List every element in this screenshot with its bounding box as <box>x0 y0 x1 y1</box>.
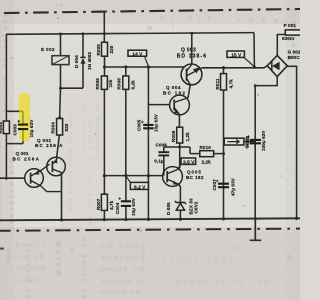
diode D004 1N4002 <box>74 52 92 70</box>
resistor R007 <box>96 194 114 210</box>
svg-text:4,7k: 4,7k <box>109 200 114 210</box>
svg-text:10µ 63V: 10µ 63V <box>131 197 136 216</box>
wire: D004 top lead to rail <box>82 34 84 58</box>
relay E002 <box>41 47 69 65</box>
wire: C006 bottom lead to Q005 base <box>163 156 165 176</box>
resistor R010 <box>200 145 214 165</box>
wire: trimmer R012 to filter node <box>244 141 255 143</box>
svg-text:nednuk re: nednuk re <box>102 279 144 285</box>
top boundary dash-dot line <box>4 9 300 13</box>
svg-text:ba: ba <box>287 254 293 260</box>
wire: down to R004 <box>59 88 62 118</box>
wire: C003 top lead <box>22 111 24 124</box>
bridge rectifier G002 B80C <box>267 50 301 77</box>
capacitor C008 <box>244 130 265 151</box>
svg-text:6,2 V: 6,2 V <box>134 184 146 190</box>
svg-text:820: 820 <box>64 123 69 131</box>
svg-text:R006: R006 <box>95 78 100 90</box>
svg-text:C005: C005 <box>136 119 141 131</box>
svg-text:eid hcrud: eid hcrud <box>100 244 144 250</box>
yellow highlighter mark <box>18 93 30 136</box>
svg-text:R005: R005 <box>96 44 101 56</box>
wire: R011 top lead <box>223 68 225 74</box>
wire: C004 bottom lead to bus <box>125 206 127 219</box>
wire: Q003 base link down to Q004 <box>188 85 190 98</box>
svg-text:220: 220 <box>109 45 114 53</box>
svg-text:BD 138-6: BD 138-6 <box>177 54 207 60</box>
svg-text:C007: C007 <box>212 179 217 191</box>
wire: Q004 emitter to R009 <box>178 114 180 127</box>
wire: R003 bottom joining bar <box>6 134 23 144</box>
wire: R007 bottom to bus <box>103 210 105 219</box>
boxed voltage 6,2V <box>126 177 148 191</box>
wire: R005 drop crossing rail from boundary <box>103 12 105 42</box>
capacitor C005 <box>136 113 158 132</box>
svg-text:630m: 630m <box>282 36 294 41</box>
svg-text:Q 001: Q 001 <box>16 151 29 156</box>
svg-text:BC 182: BC 182 <box>186 175 204 180</box>
svg-text:BC 182: BC 182 <box>163 90 185 95</box>
wire: R004 to Q002 emitter <box>57 135 60 158</box>
svg-text:Q005: Q005 <box>187 170 201 175</box>
wire: sense horizontal line to Q005 base <box>104 175 162 177</box>
wire: node horizontal C006/R010 <box>164 146 190 148</box>
svg-text:C003: C003 <box>13 124 18 136</box>
svg-text:R009: R009 <box>171 130 176 142</box>
wire: bridge bottom elbow <box>255 77 277 86</box>
resistor R005 <box>96 42 114 56</box>
svg-text:P 001: P 001 <box>284 23 297 28</box>
boxed voltage 15V <box>227 51 254 66</box>
svg-text:6,2k: 6,2k <box>130 80 135 90</box>
wire: relay coil bottom down <box>60 65 62 89</box>
svg-text:R007: R007 <box>96 198 101 210</box>
boxed voltage 3,5V <box>178 158 196 169</box>
svg-text:B80C: B80C <box>288 55 300 60</box>
svg-text:BC 256 A: BC 256 A <box>35 143 63 148</box>
svg-text:eich: eich <box>141 250 147 260</box>
wire: raw node vertical below bridge elbow <box>254 86 256 220</box>
fuse P001 630mA <box>282 23 301 41</box>
svg-text:service mi: service mi <box>82 103 88 150</box>
svg-text:Q 002: Q 002 <box>37 138 51 143</box>
svg-text:15 V: 15 V <box>231 52 242 58</box>
zener diode D005 BZX83 C6V2 <box>166 198 199 215</box>
transistor Q002 BC256A <box>35 138 65 220</box>
wire: mid horizontal node line <box>105 66 185 68</box>
svg-text:2,2k: 2,2k <box>202 160 212 165</box>
wire: bridge top to fuse <box>277 35 285 56</box>
wire: C006 top lead <box>163 147 165 152</box>
svg-text:3,5 V: 3,5 V <box>183 159 195 165</box>
wire: junction bar under relay to D004 <box>61 87 84 89</box>
wire: rail right corner down to raw node <box>253 33 255 68</box>
wire: R009 bottom to Q005 collector node <box>179 143 181 168</box>
wire: C004 top lead <box>125 176 127 201</box>
resistor R003 <box>0 121 9 134</box>
wire: Q005 emitter down to zener <box>179 184 181 202</box>
wire: elbow down to R010 run <box>189 147 191 154</box>
wire: Q004 base branch <box>148 104 169 106</box>
transistor Q001 BC256A <box>13 151 62 192</box>
wire: R005 bottom to mid node <box>104 56 106 67</box>
wire: branch to C003 top <box>6 110 23 112</box>
wire: R011 bottom long drop through C007 to bus <box>223 90 225 219</box>
wire: Q001 base line from left edge <box>0 177 25 179</box>
svg-text:1N 4002: 1N 4002 <box>87 52 92 70</box>
svg-text:10µ 63V: 10µ 63V <box>29 119 34 138</box>
trimmer R012 <box>224 135 250 147</box>
svg-text:E 002: E 002 <box>41 47 55 52</box>
svg-text:B: B <box>148 25 154 30</box>
svg-text:1,2k: 1,2k <box>185 132 190 142</box>
svg-text:n u: n u <box>55 3 63 9</box>
svg-text:100µ 63V: 100µ 63V <box>261 130 266 151</box>
svg-text:R004: R004 <box>50 122 55 134</box>
svg-text:0,1µ: 0,1µ <box>154 159 164 164</box>
transistor Q004 BC182 <box>163 85 189 115</box>
wire: down to Q001 base line <box>5 144 7 179</box>
capacitor C003 <box>13 119 35 138</box>
wire: C003 bottom lead <box>22 130 24 144</box>
svg-text:D 004: D 004 <box>74 55 79 68</box>
bottom boundary dash-dot line <box>0 229 300 231</box>
wire: Q003 emitter line to bridge <box>202 66 267 68</box>
boxed voltage 14V <box>128 50 148 66</box>
resistor R008 <box>117 76 136 90</box>
wire: zener to bus <box>179 210 181 220</box>
svg-text:BC 256A: BC 256A <box>13 156 40 161</box>
wire: ground bus <box>0 218 300 220</box>
svg-text:C004: C004 <box>115 202 120 214</box>
svg-text:10µ 63V: 10µ 63V <box>154 113 159 132</box>
ground <box>250 219 262 240</box>
wire: R010 run to R011 vertical <box>190 153 224 155</box>
svg-text:C008: C008 <box>244 137 249 149</box>
svg-text:netsok eid: netsok eid <box>100 267 144 273</box>
svg-text:tiebra: tiebra <box>16 266 45 272</box>
wire: bridge right side down to bus <box>287 66 296 219</box>
resistor R009 <box>171 127 190 143</box>
capacitor C006 <box>154 142 169 163</box>
scan specks <box>11 17 288 251</box>
svg-text:47µ 63V: 47µ 63V <box>231 177 236 196</box>
transistor Q005 BC182 <box>163 167 204 187</box>
wire: R006 bottom long drop <box>103 89 105 194</box>
svg-text:10k: 10k <box>108 79 113 87</box>
capacitor C004 <box>115 197 136 216</box>
svg-text:D 005: D 005 <box>166 202 171 215</box>
wire: D004 bottom lead <box>82 64 84 89</box>
svg-text:R010: R010 <box>200 145 212 150</box>
resistor R004 <box>50 119 69 136</box>
svg-text:R011: R011 <box>215 78 220 89</box>
wire: 14V node vertical (C005 / Q004 base feed) <box>147 67 149 220</box>
paper edge mark <box>0 248 4 250</box>
transistor Q003 BD138-6 <box>177 48 207 85</box>
wire: R006 top lead <box>104 67 106 76</box>
capacitor C007 <box>212 177 235 196</box>
svg-text:4,7k: 4,7k <box>228 79 233 89</box>
resistor R006 <box>95 76 113 90</box>
wire: left drop from rail to R003 <box>5 34 7 121</box>
svg-text:C6V2: C6V2 <box>194 201 199 213</box>
wire: Q003 collector to rail <box>191 34 193 65</box>
wire: R008 top lead <box>125 67 127 76</box>
svg-text:R008: R008 <box>117 78 122 90</box>
svg-text:netlah eb: netlah eb <box>100 290 141 296</box>
wire: top supply rail <box>6 33 254 35</box>
svg-text:nung: nung <box>6 249 12 262</box>
svg-text:R003: R003 <box>0 122 3 134</box>
svg-text:C006: C006 <box>156 142 168 147</box>
svg-text:lie: lie <box>230 246 237 252</box>
svg-text:ST DIODE un: ST DIODE un <box>82 237 88 298</box>
svg-text:Q 004: Q 004 <box>166 85 181 90</box>
wire: relay drop from rail <box>60 34 62 56</box>
svg-text:14 V: 14 V <box>132 51 143 57</box>
wire: R008 bottom long drop to sense node <box>125 89 127 175</box>
resistor R011 <box>215 74 233 90</box>
